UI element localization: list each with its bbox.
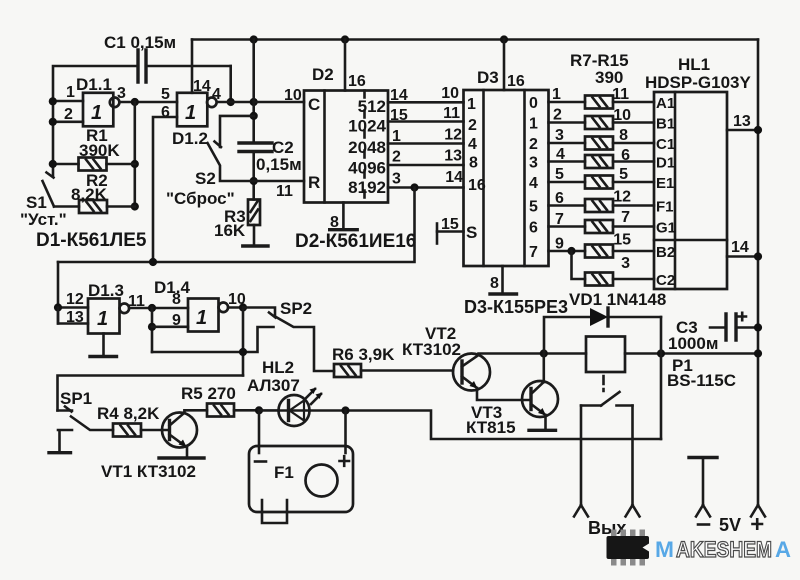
wire: pin 2 input D1.1 [53,121,83,124]
wire: pin 14 of D1.2 from top rail [191,40,194,93]
svg-text:D3-К155РЕ3: D3-К155РЕ3 [464,297,568,317]
svg-text:R: R [308,173,320,192]
wire: D1.1 output to D1.2 pin5 [120,101,177,104]
op-amp gate D1.1 [64,75,126,126]
resistor R12 row F1 [549,189,655,213]
transistor VT2 КТ3102 [402,324,531,400]
node: F1 plus junction [341,406,349,414]
diode VD1 1N4148 [544,290,666,354]
resistor R5 270 [181,384,259,417]
node: C3 rail junction [754,323,762,331]
node: R5 HL2 F1 junction [255,406,263,414]
svg-text:6: 6 [555,190,564,207]
svg-text:14: 14 [731,239,749,256]
svg-text:4: 4 [212,86,221,103]
node: S2 top junction [250,112,258,120]
logo text MAKESHEMA [655,537,791,562]
wire: pin 4 output of D1.2 [217,101,254,104]
svg-text:12: 12 [444,127,462,144]
svg-text:1: 1 [66,84,75,101]
node: R1 left junction on rail [49,160,57,168]
svg-text:9: 9 [555,236,564,253]
transistor VT1 КТ3102 [101,410,197,481]
node: pin13 on rail [754,126,762,134]
capacitor C1 [104,33,176,82]
svg-text:8: 8 [490,275,499,292]
resistor R4 8,2K [97,404,170,437]
svg-text:D1.3: D1.3 [88,281,124,300]
wire: D2 pin 8 to ground [342,203,345,230]
svg-text:2: 2 [392,149,401,166]
svg-text:S: S [466,223,477,242]
svg-text:D2-К561ИЕ16: D2-К561ИЕ16 [295,231,416,252]
svg-text:12: 12 [66,291,84,308]
svg-text:4: 4 [468,136,477,153]
svg-text:R6 3,9K: R6 3,9K [332,345,395,364]
svg-text:HL1: HL1 [678,55,710,74]
node: relay right junction [657,349,665,357]
wire: F1 plus lead [344,411,347,454]
ground below SP1 [49,451,71,454]
resistor R9 row C1 [549,127,655,150]
wire: R3 to ground [253,225,256,245]
svg-text:SP1: SP1 [60,389,92,408]
wire: top supply rail [192,38,758,41]
wire: right supply rail down to + terminal [757,40,760,506]
svg-text:10: 10 [613,107,631,124]
svg-text:3: 3 [621,255,630,272]
wire: D3 pin 8 to ground [501,266,504,294]
svg-text:1: 1 [392,128,401,145]
resistor R10 row D1 [549,146,655,168]
ground below D3 [490,292,517,295]
svg-text:S2: S2 [195,169,216,188]
node: output junction [131,98,139,106]
svg-text:15: 15 [390,107,408,124]
svg-text:8: 8 [469,155,478,172]
resistor R3 16K [214,200,260,241]
node: pin14 on rail [754,252,762,260]
node: collector diode junction [540,349,548,357]
svg-text:R4 8,2K: R4 8,2K [97,404,160,423]
node: junction C1/pin4 wire [227,98,235,106]
pin 15 S input stub [437,216,464,244]
svg-text:1024: 1024 [348,117,386,136]
switch SP2 [243,299,334,371]
wire: feedback vertical to R1 R2 [134,102,137,207]
svg-text:2: 2 [468,117,477,134]
node: pin 10 node [239,303,247,311]
svg-text:КТ3102: КТ3102 [402,340,461,359]
svg-text:"Уст.": "Уст." [20,210,67,229]
svg-text:D1-К561ЛЕ5: D1-К561ЛЕ5 [36,230,147,251]
resistor R1 390K [53,126,135,171]
svg-text:2048: 2048 [348,138,386,157]
wire: bottom wire down to D1.3 inputs [57,262,60,324]
svg-text:1: 1 [196,307,207,329]
svg-text:390K: 390K [79,141,120,160]
svg-text:1000м: 1000м [668,334,718,353]
node: pin4 node at C2 vertical [250,98,258,106]
op-amp gate D1.4 [154,278,246,332]
svg-text:D2: D2 [312,65,334,84]
wire: D1.3 input pin 12 [58,306,88,309]
svg-text:M: M [655,537,674,562]
svg-text:16: 16 [507,73,525,90]
display HL1 HDSP-G103Y [645,55,751,289]
svg-text:R5 270: R5 270 [181,384,236,403]
LED HL2 АЛ307 [247,358,323,426]
svg-text:390: 390 [595,68,623,87]
node: pin9 branch junction [567,247,575,255]
wire: D2 out 1024 to D3 pin11 [388,120,464,123]
op-amp gate D1.3 [66,281,145,334]
wire: D2 out 8192 to D3 pin14 [388,186,464,189]
svg-text:5: 5 [555,166,564,183]
svg-text:D1.1: D1.1 [76,75,112,94]
svg-text:2: 2 [553,107,562,124]
switch S1 [20,173,67,230]
svg-text:VD1 1N4148: VD1 1N4148 [569,290,666,309]
svg-text:D1.2: D1.2 [172,129,208,148]
terminal plus 5V [751,505,765,529]
wire: F1 minus lead [258,410,261,453]
svg-text:AKESHEM: AKESHEM [676,537,772,562]
wire: 8192 node down to bottom feedback wire [58,188,415,263]
svg-text:0,15м: 0,15м [256,155,302,174]
svg-text:5V: 5V [719,515,741,535]
svg-text:VT1 КТ3102: VT1 КТ3102 [101,462,196,481]
svg-text:14: 14 [445,169,463,186]
svg-text:3: 3 [392,171,401,188]
svg-text:8,2K: 8,2K [71,185,108,204]
svg-text:D1: D1 [656,155,675,172]
svg-text:1: 1 [97,308,108,330]
svg-text:6: 6 [529,220,538,237]
wire: D1.4 output pin 10 [228,306,243,309]
svg-text:7: 7 [529,244,538,261]
svg-text:6: 6 [621,147,630,164]
svg-text:2: 2 [64,106,73,123]
svg-text:D3: D3 [477,68,499,87]
node: pin6 net junction on bottom wire [149,258,157,266]
ground below D1.3 [90,355,117,358]
wire: long wire to SP1 [58,376,244,411]
switch S2 Сброс [166,116,254,208]
wire: D1.4 input pin 9 [152,325,188,328]
node: crossing junction [239,348,247,356]
counter D2 К561ИЕ16 [304,65,388,203]
wire: D1.3 input pin 13 [58,308,88,324]
node: pin 9 branch [148,323,156,331]
wire: branch down to R15 [572,251,586,279]
PROM D3 К155РЕ3 [464,68,549,266]
node: S2 bottom junction [250,177,258,185]
svg-text:3: 3 [117,85,126,102]
svg-text:11: 11 [276,183,293,200]
svg-text:4096: 4096 [348,159,386,178]
wire: HL1 pin 14 to rail [727,255,758,258]
resistor R14 row B2 [549,232,655,258]
svg-text:16: 16 [348,73,366,90]
svg-text:3: 3 [529,155,538,172]
wire: HL1 pin 13 to rail [727,129,758,132]
svg-text:"Сброс": "Сброс" [166,189,235,208]
wire: pin10 node down to SP1 wire [242,308,245,376]
logo chip icon [607,530,650,566]
switch SP1 [58,389,114,452]
svg-text:F1: F1 [274,463,294,482]
pin labels D3 inputs [441,85,463,186]
svg-text:11: 11 [443,105,460,122]
wire: D2 out 512 to D3 pin10 [388,101,464,104]
ground below VT3 [529,429,556,432]
resistor R15 row C2 [585,255,654,286]
wire: tie vertical to pin 9 [151,308,154,352]
resistor R7 row A1 [549,86,655,109]
svg-text:8: 8 [172,291,181,308]
svg-text:1: 1 [529,116,538,133]
svg-text:8: 8 [619,127,628,144]
svg-text:B2: B2 [656,244,675,261]
wire: pin 1 input D1.1 [53,100,83,103]
svg-text:5: 5 [619,166,628,183]
wire: D1.3 ground stem [102,334,105,357]
resistor R6 3,9K [332,345,453,377]
wire: vertical node from rail through C2 to R3 [252,40,255,200]
terminal minus 5V [689,458,717,525]
node: pin 12 junction [54,303,62,311]
svg-text:11: 11 [612,86,629,103]
terminal Вых right arrow [626,505,640,517]
svg-text:4: 4 [529,175,538,192]
node: relay rail junction [754,349,762,357]
capacitor C3 1000м [668,313,758,353]
svg-text:512: 512 [358,97,386,116]
wire: C pin 10 input of D2 [254,101,304,104]
svg-text:3: 3 [555,127,564,144]
svg-text:14: 14 [193,78,211,95]
svg-text:КТ815: КТ815 [466,418,516,437]
wire: D1.3 output to D1.4 pin 8 [129,307,188,310]
svg-text:15: 15 [613,232,631,249]
wire: gate tie wire to SP2 lower contact [152,327,274,352]
svg-text:13: 13 [733,113,751,130]
svg-text:B1: B1 [656,116,675,133]
svg-text:14: 14 [390,87,408,104]
svg-text:4: 4 [556,146,565,163]
node: 8192 branch junction [410,183,418,191]
svg-text:HDSP-G103Y: HDSP-G103Y [645,73,751,92]
svg-text:HL2: HL2 [262,358,294,377]
svg-text:C2: C2 [656,272,675,289]
ground below VT1 [159,456,204,459]
node: rail junction D2 pin16 [341,35,349,43]
svg-text:15: 15 [441,216,459,233]
op-amp gate D1.2 [161,78,221,148]
node: R2 right junction [131,202,139,210]
node: pin2 junction on rail [49,118,57,126]
svg-text:G1: G1 [656,220,676,237]
resistor R13 row G1 [549,209,655,233]
wire: C1 to pin4 node vertical [229,66,232,102]
wire: D2 out 2048 to D3 pin12 [388,142,464,145]
wire: D2 pin 16 from rail [344,40,347,91]
svg-text:7: 7 [621,209,630,226]
wire: VT2 collector to relay [479,354,587,356]
svg-text:C1 0,15м: C1 0,15м [104,33,176,52]
svg-text:16K: 16K [214,221,246,240]
wire: HL2 to F1 plus and VT3 net [310,411,662,440]
transistor VT3 КТ815 [466,354,558,438]
svg-text:BS-115C: BS-115C [667,371,736,390]
svg-text:E1: E1 [656,175,674,192]
svg-text:1: 1 [185,102,196,124]
svg-text:10: 10 [441,85,459,102]
svg-text:SP2: SP2 [280,299,312,318]
node: pin1 junction on rail [49,97,57,105]
svg-text:0: 0 [529,95,538,112]
svg-text:12: 12 [613,189,631,206]
node: rail junction D3 pin16 [500,35,508,43]
svg-text:5: 5 [529,199,538,216]
buzzer F1 [249,446,353,523]
wire: vertical VD1 to bottom net [660,317,663,439]
svg-text:5: 5 [161,86,170,103]
ground below R3 [243,244,268,247]
wire: C1 right lead [146,65,231,68]
wire: pin 6 of D1.2 down to lower net [153,117,177,262]
wire: C1 left lead and left input rail [53,66,138,176]
svg-text:6: 6 [161,104,170,121]
svg-text:8192: 8192 [348,178,386,197]
svg-text:C: C [308,95,320,114]
resistor R11 row E1 [549,166,655,189]
capacitor C2 0,15м [239,138,302,174]
resistor R8 row B1 [549,107,655,130]
wire: D2 out 4096 to D3 pin13 [388,164,464,167]
svg-text:13: 13 [444,148,462,165]
svg-text:1: 1 [467,96,476,113]
svg-text:16: 16 [468,177,486,194]
svg-text:C1: C1 [656,136,675,153]
relay coil P1 BS-115C [586,337,758,391]
svg-text:10: 10 [284,87,302,104]
node: output branch [148,304,156,312]
svg-text:1: 1 [552,86,561,103]
svg-text:A1: A1 [656,95,675,112]
node: R1 right junction [131,160,139,168]
wire: R pin 11 input of D2 [254,180,304,183]
svg-text:7: 7 [555,211,564,228]
relay actuator link [602,376,605,391]
relay switch contacts [581,392,633,505]
svg-text:2: 2 [529,136,538,153]
svg-text:9: 9 [172,312,181,329]
svg-text:АЛ307: АЛ307 [247,376,300,395]
pin labels D2 outputs [390,87,408,188]
svg-text:F1: F1 [656,199,674,216]
wire: D3 pin 16 from rail [503,40,506,91]
svg-text:A: A [775,537,791,562]
svg-text:1: 1 [91,102,102,124]
terminal Вых left arrow [574,505,588,517]
node: rail junction C2 branch [250,35,258,43]
ground below D2 [330,228,358,231]
resistor R2 8,2K [54,171,135,213]
